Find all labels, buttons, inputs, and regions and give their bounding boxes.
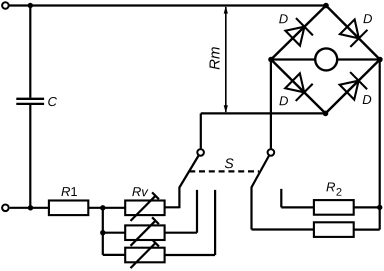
svg-text:R: R <box>326 179 335 194</box>
resistor R2 upper <box>314 200 354 215</box>
wire top horizontal <box>9 4 326 6</box>
resistor R2 lower <box>314 222 354 237</box>
terminal top-left <box>2 2 9 9</box>
wire Rv2 from bus <box>103 232 125 234</box>
wire Rv2 to contact 1 <box>165 190 197 233</box>
meter circle <box>315 48 337 70</box>
node bridge left <box>268 57 274 63</box>
wire bus to Rv3 <box>103 254 125 256</box>
svg-text:D: D <box>279 93 288 108</box>
wire R1 to node <box>88 207 125 209</box>
svg-text:S: S <box>224 155 234 171</box>
wire left bus vertical <box>102 208 104 255</box>
svg-text:R1: R1 <box>61 184 78 199</box>
switch S right lever <box>252 156 270 188</box>
resistor Rv1 (variable) <box>125 192 164 221</box>
wire Rv1 to switch lever <box>165 187 180 208</box>
node bottom capacitor <box>28 205 33 210</box>
wire capacitor branch lower <box>29 105 31 208</box>
wire left vertex to right pivot <box>270 60 272 149</box>
svg-text:Rv: Rv <box>132 184 149 199</box>
wire upper R2 to right bus <box>354 206 380 208</box>
wire right bus vertical <box>379 60 381 230</box>
wire bridge horizontal diagonal <box>271 58 380 60</box>
wire lower R2 to right bus <box>354 229 380 231</box>
diode D top-right <box>339 18 368 47</box>
resistor Rv3 (variable) <box>125 240 164 269</box>
arrowhead down <box>224 105 228 113</box>
node top capacitor <box>28 3 33 8</box>
wire bottom vertex horizontal <box>201 112 326 114</box>
wire drop to left pivot <box>200 113 202 148</box>
svg-text:2: 2 <box>336 187 342 199</box>
switch S link dashed <box>189 170 259 172</box>
wire right lever to lower R2 <box>252 187 314 230</box>
diode D bottom-left <box>284 72 313 101</box>
node bridge bottom <box>323 111 329 117</box>
switch S left lever <box>179 156 198 188</box>
wire Rv3 to contact 2 <box>165 190 216 255</box>
arrowhead up <box>224 6 228 14</box>
diode D bottom-right <box>338 72 367 101</box>
svg-text:D: D <box>363 11 372 26</box>
switch pivot left <box>197 149 204 156</box>
node R1 bus <box>100 205 105 210</box>
svg-text:C: C <box>47 94 57 109</box>
capacitor C plates <box>16 99 44 104</box>
resistor Rv2 (variable) <box>125 217 164 246</box>
dimension arrow Rm <box>225 7 227 112</box>
node Rv2 bus <box>100 230 105 235</box>
wire bottom left <box>10 207 49 209</box>
terminal bottom-left <box>2 205 9 212</box>
svg-text:Rm: Rm <box>207 47 224 70</box>
switch pivot right <box>268 149 275 156</box>
node R2 right bus <box>377 205 382 210</box>
node bridge right <box>377 57 383 63</box>
bridge diamond edges <box>271 6 380 114</box>
svg-text:D: D <box>279 11 288 26</box>
svg-text:D: D <box>362 92 371 107</box>
resistor R1 <box>49 201 88 216</box>
wire capacitor branch upper <box>29 6 31 98</box>
node bridge top <box>323 3 329 9</box>
diode D top-left <box>284 18 313 47</box>
wire contact to upper R2 <box>281 189 314 208</box>
